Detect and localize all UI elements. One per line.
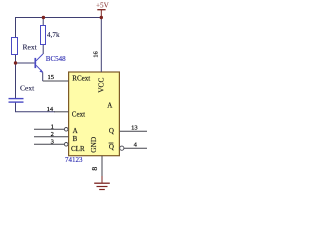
svg-text:13: 13 <box>131 125 138 132</box>
svg-text:4,7k: 4,7k <box>47 31 60 39</box>
svg-text:Rext: Rext <box>23 43 38 52</box>
svg-text:Q: Q <box>109 127 114 135</box>
svg-text:A: A <box>73 127 78 135</box>
svg-text:B: B <box>73 135 78 143</box>
svg-text:+5V: +5V <box>96 2 110 10</box>
svg-text:8: 8 <box>90 167 99 171</box>
svg-text:2: 2 <box>51 131 54 138</box>
svg-text:3: 3 <box>51 139 54 146</box>
svg-text:74123: 74123 <box>65 156 83 164</box>
svg-text:BC548: BC548 <box>46 55 66 63</box>
svg-text:14: 14 <box>47 106 54 113</box>
svg-text:1: 1 <box>51 124 54 131</box>
svg-text:4: 4 <box>134 142 138 149</box>
svg-text:CLR: CLR <box>71 145 85 153</box>
svg-text:GND: GND <box>89 136 98 153</box>
svg-text:Cext: Cext <box>20 84 35 93</box>
svg-text:Cext: Cext <box>72 111 85 119</box>
svg-text:A: A <box>107 101 112 109</box>
svg-text:VCC: VCC <box>96 78 105 93</box>
svg-text:RCext: RCext <box>72 75 90 83</box>
svg-text:Q: Q <box>109 143 114 151</box>
svg-text:15: 15 <box>48 74 55 81</box>
svg-text:16: 16 <box>93 50 100 57</box>
